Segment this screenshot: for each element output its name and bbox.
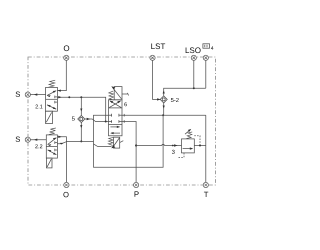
label valve 6 [124,102,127,106]
wire: valve 6 right LS line to T riser corner [122,114,206,116]
valve 2.2 pilot box (below) [46,158,52,168]
wire: shuttle5 junction left with jog to valve 2.2 right port [57,141,81,143]
wire: arrowhead into valve 3 [174,144,178,146]
wire: main line from junction to relief valve 3 [136,145,162,147]
node: junction 2.1 output / shuttle 5 top riser [80,96,82,98]
shuttle valve 5 body [78,115,85,122]
valve 2.1 top square flow arrow [47,91,56,96]
wire: arrowhead on S upper line [34,93,38,95]
wire: shuttle 5-2 bottom riser to LS line [163,103,165,115]
wire: shuttle5 junction right to LS vertical [81,140,93,142]
port P [134,182,139,187]
port S lower [25,137,30,142]
wire: valve 6 lower-right port down to main junction [122,122,136,146]
wire: pilot jog from LS vertical to valve 6 bottom pilot [94,144,112,147]
valve 6 centre position blocked ports [109,114,112,116]
port LST [150,55,155,60]
node: junction on 2.1 output line [68,96,70,98]
node: main junction P line [135,144,137,146]
wire: shuttle 5 bottom output down to junction [80,123,82,142]
wire: LSO riser [193,60,195,88]
valve 6 main body [109,100,123,136]
valve 6 bottom spring (left) [108,137,113,145]
wire: arrowhead on S lower line [34,139,38,141]
wire: arrowhead into valve 2.1 top port [57,90,60,92]
port S upper [25,92,30,97]
valve 2.2 spring (top, tilted) [49,128,56,135]
enclosure boundary (dash-dot frame) [28,57,216,185]
node: pilot tap dot on valve 3 output [199,145,201,147]
wire: shuttle 5 right output to valve 6 lower left port [85,119,109,122]
label shuttle 5 [72,116,75,120]
valve 6 top pilot drain stub [122,93,127,95]
port T [203,182,208,187]
valve 6 bottom pilot box [111,137,123,148]
valve 2.1 top square blocked port [55,96,58,98]
wire: P riser from main junction to port P [135,146,137,183]
wire: arrow down on 5-2 bottom [163,106,165,109]
port LSO [191,55,196,60]
valve 2.2 body [46,135,57,158]
node: junction valve2.1-output vertical on lower-left port line [105,121,107,123]
wire: arrowhead into 5-2 [157,98,161,100]
wire: S lower supply into valve 2.2 [30,139,46,141]
node: dot before valve 3 [172,145,174,147]
wire: O top riser to valve 2.1 upper right port [57,60,66,90]
label P [135,191,139,196]
label LSO [186,47,201,53]
node: junction of 5-2 riser on valve 6 right LS line [162,114,164,116]
node: junction LSO riser on header [193,87,195,89]
wire: arrowhead on shuttle 5 right output [87,118,91,120]
wire: arrow up on 5-2 top [163,90,165,93]
relief valve 3 spring (top, tilted) [186,132,192,139]
wire: LST riser down and into shuttle 5-2 [153,60,161,99]
wire: shuttle 5 top riser [80,97,82,115]
wire: arrowhead on 2.2 output [58,136,62,138]
valve 6 top pilot box [111,86,122,100]
wire: valve 3 output to T riser [194,145,206,147]
relief valve 3 adjustment arrow [185,130,190,135]
relief valve 3 body [182,139,195,153]
port O top [64,55,69,60]
valve 2.2 top square blocked port [55,142,58,144]
wire: valve 2.2 top-right port to bottom O riser [57,137,66,183]
label valve 3 [172,150,175,154]
label O top [64,45,69,51]
label valve 2.2 [35,144,42,148]
wire: S upper supply into valve 2.1 [30,94,45,96]
valve 6 bottom position arrows [110,126,119,128]
valve 2.2 bottom square blocked port [55,149,58,151]
label O bottom [63,192,68,197]
shuttle valve 5-2 body [160,96,167,103]
node: junction shuttle 5 bottom [80,140,82,142]
label T [204,192,208,197]
label shuttle 5-2 [171,98,179,102]
wire: shuttle 5-2 top to LSO header [164,88,206,96]
label 4 [211,46,214,49]
measuring connection box 4 [203,44,210,48]
port O bottom [64,182,69,187]
valve 2.1 bottom square flow arrow [47,105,56,109]
label valve 2.1 [35,105,42,109]
valve 6 bottom pilot drain tick [120,141,124,143]
label S upper [16,91,20,96]
wire: arrow down into shuttle 5 [80,109,82,112]
relief valve 3 pilot line (dashed) [194,136,200,145]
valve 6 top position crossed arrows [109,101,120,107]
valve 6 external port bars right [123,114,125,117]
port 4 [203,55,208,60]
wire: T riser [205,115,207,182]
valve 6 top spring (left of pilot box) [109,91,114,100]
valve 2.1 body [46,87,58,111]
label S lower [16,136,20,141]
wire: arrowhead toward valve 2.2 jog [60,143,64,145]
wire: valve 2.1 output line to corner above valve 6 [57,97,105,121]
wire: arrowhead on 2.1 output [58,96,62,98]
wire: valve 6 upper-left port line, LS vertical, bottom U route [94,115,164,167]
valve 2.1 bottom square blocked port [55,101,58,103]
valve 2.2 bottom square flow arrow [48,150,57,155]
wire: port 4 riser [205,60,207,88]
relief valve 3 drain line (dashed) [178,153,184,157]
label LST [151,43,165,49]
valve 2.1 spring (top, tilted) [48,80,55,87]
valve 2.2 top square flow arrow [48,138,57,145]
wire: arrow down on shuttle 5 bottom [80,125,82,128]
valve 2.1 pilot box (below) [45,111,52,123]
